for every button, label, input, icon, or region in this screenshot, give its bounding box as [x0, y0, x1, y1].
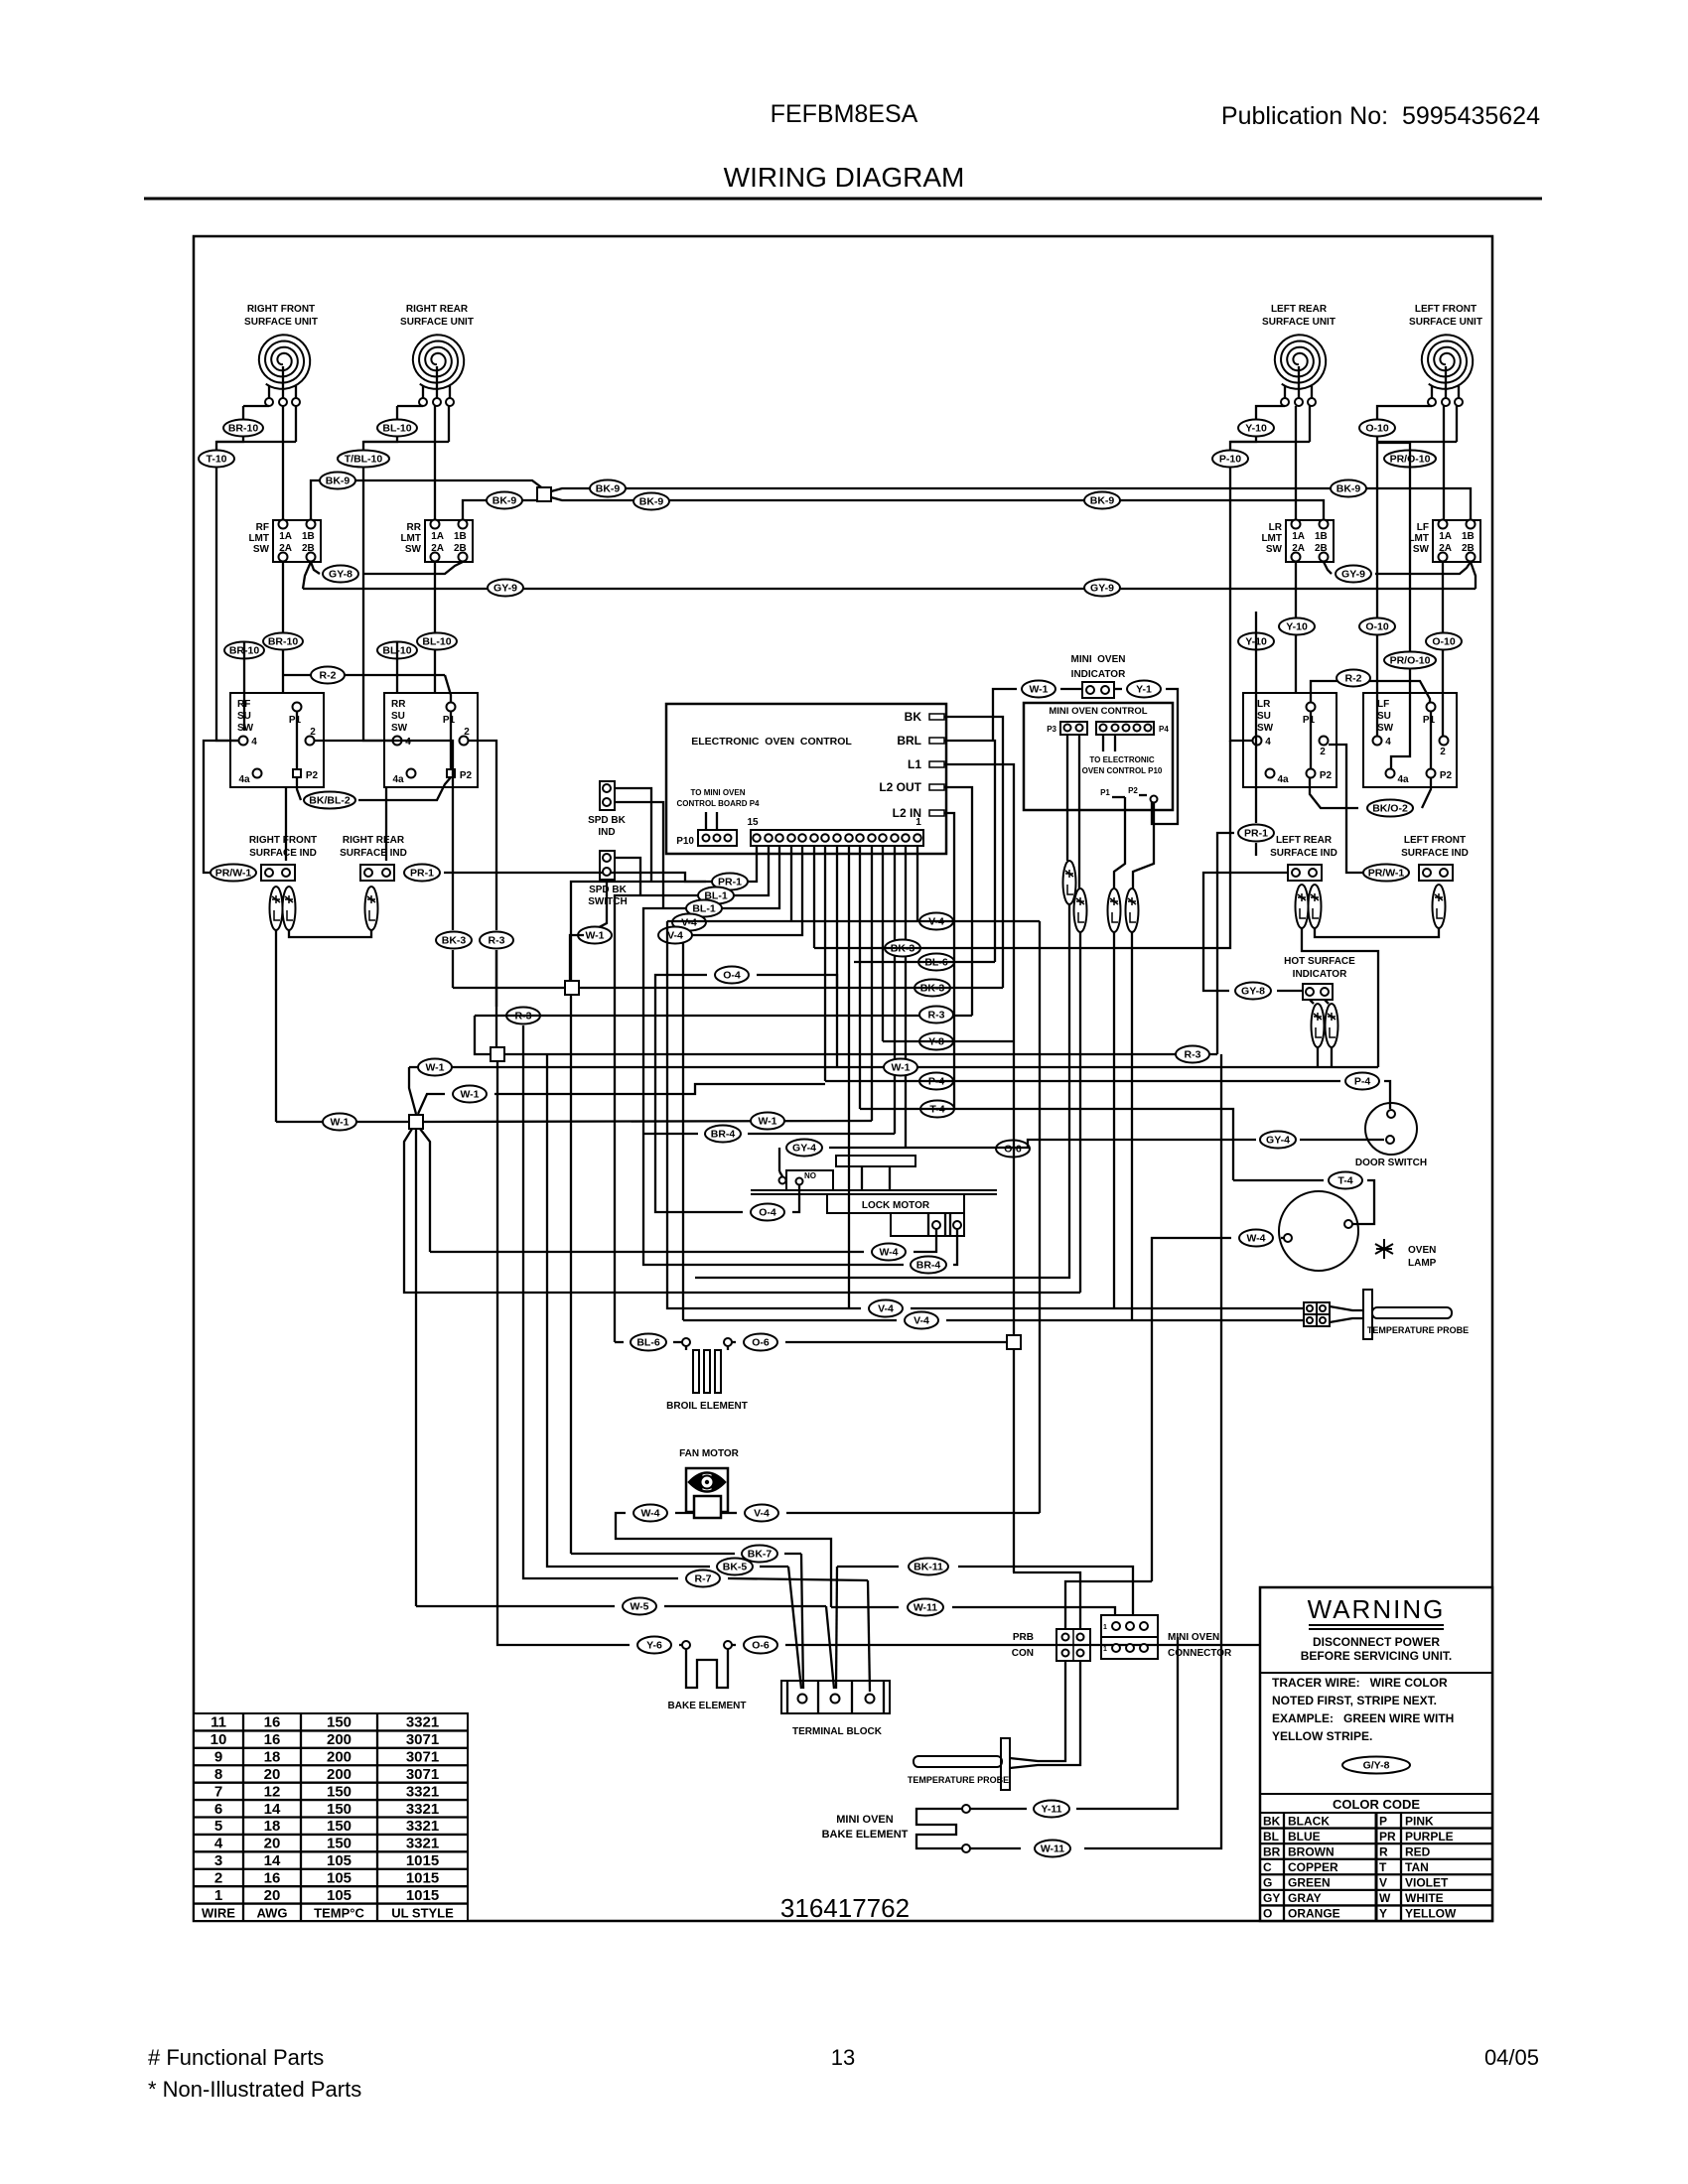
warning box frame: [1260, 1587, 1492, 1921]
svg-text:LEFT REAR: LEFT REAR: [1271, 304, 1328, 315]
svg-text:SW: SW: [237, 723, 254, 734]
svg-text:VIOLET: VIOLET: [1405, 1876, 1449, 1890]
temperature probe rod: [1372, 1307, 1452, 1318]
oval BL-10 top: [377, 420, 417, 437]
svg-text:2B: 2B: [454, 543, 467, 554]
svg-text:2: 2: [1440, 747, 1446, 757]
svg-text:G: G: [1263, 1876, 1272, 1890]
svg-text:SW: SW: [253, 544, 270, 555]
svg-text:PINK: PINK: [1405, 1814, 1434, 1828]
fan motor base: [694, 1496, 721, 1518]
oval GY-4 bus: [786, 1140, 822, 1157]
svg-text:04/05: 04/05: [1484, 2045, 1539, 2070]
wire BK/BL-2: [297, 777, 451, 800]
wire V-4 bus: [667, 921, 1040, 1513]
svg-text:AWG: AWG: [256, 1905, 287, 1920]
wire SPD BK IND pin2: [615, 802, 663, 908]
wire Y-8 bus: [883, 1040, 1014, 1042]
svg-text:NOTED FIRST, STRIPE NEXT.: NOTED FIRST, STRIPE NEXT.: [1272, 1694, 1437, 1707]
lock motor body: [827, 1194, 964, 1213]
left front ind lamp: [1433, 885, 1446, 928]
mini oven P1 P2: [1100, 786, 1157, 803]
svg-text:20: 20: [264, 1887, 281, 1904]
svg-text:1B: 1B: [302, 531, 315, 542]
svg-text:W: W: [1379, 1891, 1391, 1905]
svg-text:MINI OVEN: MINI OVEN: [836, 1814, 894, 1826]
svg-text:2A: 2A: [279, 543, 292, 554]
svg-text:3: 3: [214, 1852, 222, 1869]
right rear surface ind box: [360, 865, 394, 881]
wire L2 IN pin run: [944, 813, 954, 1109]
mini oven bake label: [822, 1814, 909, 1841]
svg-text:LEFT REAR: LEFT REAR: [1276, 835, 1333, 846]
oval BR-4 lock: [911, 1257, 946, 1274]
svg-text:10: 10: [211, 1731, 227, 1748]
publication number: [1221, 102, 1540, 130]
EOC P10 connector: [676, 830, 737, 847]
wire BK/O-2: [1310, 777, 1431, 808]
svg-text:W-11: W-11: [914, 1602, 937, 1614]
svg-text:P-4: P-4: [1354, 1076, 1371, 1088]
svg-text:RED: RED: [1405, 1844, 1431, 1858]
svg-text:O-4: O-4: [759, 1207, 776, 1219]
oval R-3 bus right: [919, 1007, 953, 1024]
svg-text:HOT SURFACE: HOT SURFACE: [1284, 956, 1355, 967]
left front surface unit label: [1409, 304, 1482, 328]
svg-text:R-2: R-2: [1345, 673, 1362, 685]
svg-text:2B: 2B: [1315, 543, 1328, 554]
wire R-2 left: [283, 675, 451, 703]
wire Y-11 link: [970, 1637, 1178, 1809]
svg-text:W-1: W-1: [425, 1062, 444, 1074]
wire GY-8 right link: [1203, 873, 1303, 991]
wire W-5 bus: [416, 1605, 826, 1607]
oval W-4 fan: [633, 1505, 667, 1522]
svg-text:P2: P2: [460, 770, 473, 781]
mini oven connector box: [1101, 1615, 1158, 1659]
svg-text:RR: RR: [407, 522, 422, 533]
svg-text:Y: Y: [1379, 1907, 1387, 1921]
wire PR/W-1 left riser: [204, 741, 238, 873]
svg-text:LR: LR: [1257, 699, 1271, 710]
wire RR LMT 1B to BK-9 bus: [463, 497, 544, 520]
svg-text:T-10: T-10: [206, 454, 226, 466]
wire R-3 bus: [475, 950, 1217, 1054]
svg-text:RIGHT REAR: RIGHT REAR: [343, 835, 405, 846]
oval GY-8 right: [1235, 983, 1271, 1000]
mini bake terminals: [962, 1805, 970, 1852]
oval Y-6: [637, 1637, 671, 1654]
svg-text:O-6: O-6: [752, 1640, 770, 1652]
svg-text:BROWN: BROWN: [1288, 1844, 1335, 1858]
wire SPD BK SW pin1: [615, 858, 640, 895]
wire O-4 mid: [655, 975, 837, 1212]
wire pin fan PR-1: [571, 846, 757, 1554]
wire RF coil right lead down: [216, 406, 296, 442]
svg-text:T: T: [1379, 1860, 1387, 1874]
svg-text:TERMINAL BLOCK: TERMINAL BLOCK: [792, 1726, 883, 1737]
wire lock motor W-4: [914, 1229, 936, 1252]
svg-text:GY-9: GY-9: [1341, 569, 1365, 581]
wire Y-1 mini link: [1114, 689, 1178, 824]
oval BK-9 d: [633, 493, 669, 510]
main border: [194, 236, 1492, 1921]
svg-text:16: 16: [264, 1869, 281, 1886]
svg-text:GY-8: GY-8: [329, 569, 352, 581]
svg-text:# Functional Parts: # Functional Parts: [148, 2045, 324, 2070]
svg-text:SW: SW: [1257, 723, 1274, 734]
wire pin fan BL-1 b: [643, 846, 779, 1134]
right rear surface ind label: [340, 835, 407, 859]
oval Y-11: [1034, 1801, 1069, 1818]
oval R-3 left: [480, 932, 513, 949]
oval BR-10 low: [224, 642, 264, 659]
wire R-3 right riser: [1217, 833, 1234, 1054]
mini oven indicator label: [1070, 654, 1126, 680]
oval V-4 fan a: [672, 914, 706, 931]
svg-text:SW: SW: [405, 544, 422, 555]
wire BK-3 low bus: [453, 741, 1230, 988]
wire GY-4 bus: [779, 1148, 906, 1171]
right front ind lamp b: [283, 887, 296, 930]
oval P-4 bus: [919, 1073, 953, 1090]
wire RF LMT 2A down: [282, 562, 284, 693]
wire W-1 bus 1075: [409, 1066, 1378, 1068]
footer date: [1484, 2045, 1539, 2070]
svg-text:BK/O-2: BK/O-2: [1372, 803, 1408, 815]
LF limit switch: [1408, 520, 1480, 563]
oval W-11: [908, 1599, 943, 1616]
left rear surface ind box: [1288, 865, 1322, 881]
svg-text:MINI OVEN: MINI OVEN: [1070, 654, 1125, 665]
svg-text:200: 200: [327, 1766, 352, 1783]
oval R-3 mid: [506, 1008, 540, 1024]
svg-text:16: 16: [264, 1731, 281, 1748]
wire gauge table: [194, 1713, 468, 1921]
oval BK-9 a: [320, 473, 355, 489]
svg-text:O-10: O-10: [1432, 636, 1456, 648]
oval V-4 probe a: [869, 1300, 903, 1317]
svg-text:P1: P1: [443, 715, 456, 726]
svg-text:W-1: W-1: [585, 930, 604, 942]
svg-text:LMT: LMT: [400, 533, 421, 544]
svg-text:YELLOW: YELLOW: [1405, 1907, 1457, 1921]
EOC pin strip 15..1: [747, 817, 923, 846]
svg-text:RIGHT FRONT: RIGHT FRONT: [249, 835, 317, 846]
right front ind lamp a: [270, 887, 283, 930]
oval O-6 broil: [744, 1334, 777, 1351]
svg-text:R-3: R-3: [1185, 1049, 1201, 1061]
svg-text:TEMP°C: TEMP°C: [314, 1905, 364, 1920]
svg-text:BK: BK: [905, 710, 922, 724]
oval BR-10 top: [223, 420, 263, 437]
oval BL-1 fan a: [698, 887, 734, 904]
wire junction down legs: [404, 1129, 1080, 1606]
wire RR LMT 2A down: [434, 562, 436, 693]
svg-text:T/BL-10: T/BL-10: [345, 454, 383, 466]
title underline: [144, 198, 1542, 201]
lock motor bar: [751, 1190, 997, 1194]
svg-text:P2: P2: [1320, 770, 1333, 781]
hot surface lamp a: [1312, 1004, 1325, 1047]
svg-text:Y-6: Y-6: [646, 1640, 662, 1652]
svg-text:V: V: [1379, 1876, 1387, 1890]
svg-text:BAKE ELEMENT: BAKE ELEMENT: [822, 1829, 909, 1841]
svg-text:V-4: V-4: [754, 1508, 770, 1520]
svg-text:2B: 2B: [302, 543, 315, 554]
svg-text:SPD BK: SPD BK: [588, 815, 627, 826]
svg-text:FEFBM8ESA: FEFBM8ESA: [771, 100, 918, 128]
oval T-4 bus: [920, 1101, 954, 1118]
wire LR coil mid lead to LR LMT 1A: [1295, 406, 1297, 520]
svg-text:1: 1: [214, 1887, 222, 1904]
color code table: [1260, 1813, 1492, 1921]
svg-text:BL-6: BL-6: [636, 1337, 659, 1349]
svg-text:P-10: P-10: [1219, 454, 1241, 466]
left front surface ind label: [1401, 835, 1469, 859]
oval PR/W-1 left: [211, 865, 256, 882]
mini oven indicator box: [1082, 682, 1114, 698]
oval BL-6 broil: [631, 1334, 666, 1351]
svg-text:BK-9: BK-9: [492, 495, 517, 507]
svg-text:Y-10: Y-10: [1286, 621, 1308, 633]
oval O-6 right: [996, 1141, 1030, 1158]
svg-text:P1: P1: [1303, 715, 1316, 726]
oval P-4 right: [1345, 1073, 1379, 1090]
wire BL-10 low vertical: [396, 641, 398, 693]
oval Y-10 low: [1238, 633, 1274, 650]
wire BK-9 bus lower to LR LMT 1B: [551, 497, 1324, 520]
svg-text:T-4: T-4: [1337, 1175, 1352, 1187]
svg-text:BK-9: BK-9: [326, 476, 351, 487]
svg-text:SU: SU: [391, 711, 405, 722]
mini oven control P3: [1047, 722, 1087, 735]
oval W-1 bus b: [884, 1059, 917, 1076]
svg-text:7: 7: [214, 1783, 222, 1800]
svg-text:BK-9: BK-9: [1090, 495, 1115, 507]
oval W-1 mini: [1022, 681, 1055, 698]
oval R-2 left: [311, 667, 345, 684]
junction W-1 main: [409, 1115, 423, 1129]
broil element terminals: [682, 1338, 732, 1346]
svg-text:SU: SU: [1257, 711, 1271, 722]
svg-text:LR: LR: [1269, 522, 1283, 533]
svg-text:TAN: TAN: [1405, 1860, 1429, 1874]
oval BK-7: [742, 1546, 777, 1563]
wire GY-4 right bus: [906, 1140, 1256, 1148]
wire W-1 junction V: [409, 1067, 445, 1114]
oval BL-6 bus: [918, 954, 954, 971]
wire W-4 oven lamp link: [1152, 1238, 1284, 1581]
wire pin fan BL-1 a: [615, 846, 769, 1342]
wire T-4 door link: [1233, 1180, 1374, 1201]
LF surface switch: [1363, 693, 1457, 787]
svg-text:W-4: W-4: [640, 1508, 659, 1520]
svg-text:W-1: W-1: [1029, 684, 1048, 696]
oval T-4 door: [1329, 1172, 1362, 1189]
svg-text:3071: 3071: [406, 1766, 439, 1783]
wire terminal block feeds: [788, 1554, 870, 1692]
wire RR coil mid lead down to RR LMT 1A: [434, 406, 436, 520]
oval PR-1 left of LR box: [1238, 825, 1274, 842]
oval W-1 bus a: [418, 1059, 452, 1076]
left rear ind lamp b: [1309, 885, 1322, 928]
wire PR/W-1 right link: [1329, 745, 1363, 873]
RR surface switch: [384, 693, 478, 787]
svg-text:* Non-Illustrated Parts: * Non-Illustrated Parts: [148, 2077, 361, 2102]
svg-text:LF: LF: [1417, 522, 1429, 533]
svg-text:150: 150: [327, 1818, 352, 1835]
wire R-3 left drop: [495, 950, 497, 1007]
EOC P10 wires: [706, 812, 717, 830]
oval V-4 fan b: [658, 927, 692, 944]
svg-text:L1: L1: [908, 757, 921, 771]
svg-text:MINI OVEN CONTROL: MINI OVEN CONTROL: [1049, 706, 1147, 717]
svg-text:4a: 4a: [1277, 774, 1289, 785]
svg-text:15: 15: [747, 817, 759, 828]
wire GY-9 c to LF wiring: [1375, 562, 1471, 574]
oval O-10 mid: [1359, 618, 1395, 635]
svg-text:GY-4: GY-4: [792, 1143, 816, 1155]
oval PR/W-1 right: [1363, 865, 1409, 882]
wire T-4 bus: [860, 1109, 1233, 1180]
wire L1 pin run: [944, 764, 1014, 1041]
svg-text:3071: 3071: [406, 1749, 439, 1766]
svg-text:SURFACE IND: SURFACE IND: [1401, 848, 1469, 859]
svg-text:1015: 1015: [406, 1852, 439, 1869]
svg-text:WHITE: WHITE: [1405, 1891, 1444, 1905]
wire BK-5 bus: [547, 1054, 788, 1567]
svg-text:3071: 3071: [406, 1731, 439, 1748]
svg-text:SW: SW: [1413, 544, 1430, 555]
svg-text:150: 150: [327, 1801, 352, 1818]
wire O-6 bake bus: [732, 1644, 1316, 1646]
svg-text:3321: 3321: [406, 1818, 439, 1835]
mini oven lamp Y-1: [1108, 888, 1121, 932]
oval Y-1 mini: [1127, 681, 1161, 698]
svg-text:G/Y-8: G/Y-8: [1363, 1760, 1390, 1772]
lock motor top plate: [836, 1156, 915, 1166]
oval W-1 1129: [751, 1113, 784, 1130]
svg-text:BK/BL-2: BK/BL-2: [309, 795, 351, 807]
svg-text:4: 4: [405, 737, 411, 748]
svg-text:SURFACE UNIT: SURFACE UNIT: [1409, 317, 1482, 328]
svg-text:V-4: V-4: [914, 1315, 929, 1327]
svg-text:YELLOW STRIPE.: YELLOW STRIPE.: [1272, 1729, 1372, 1743]
svg-text:W-1: W-1: [330, 1117, 349, 1129]
wire mini conn feed2: [1055, 1661, 1080, 1765]
svg-text:2: 2: [1320, 747, 1326, 757]
svg-text:W-11: W-11: [1041, 1843, 1064, 1855]
svg-text:W-1: W-1: [891, 1062, 910, 1074]
warning divider: [1260, 1672, 1492, 1674]
svg-text:1A: 1A: [1292, 531, 1305, 542]
oval O-4 lock: [751, 1204, 784, 1221]
wire RF sw 2 riser: [315, 741, 453, 930]
svg-text:WIRING DIAGRAM: WIRING DIAGRAM: [724, 162, 965, 193]
mini oven control box: [1024, 703, 1173, 810]
oval BK-11: [909, 1559, 948, 1575]
SPD BK SWITCH label: [588, 885, 627, 907]
wire BR-10 low vertical: [243, 641, 245, 731]
svg-text:INDICATOR: INDICATOR: [1293, 969, 1347, 980]
wire LF coil left lead jog: [1377, 406, 1432, 736]
bake element shape: [686, 1649, 728, 1688]
svg-text:R-3: R-3: [928, 1010, 945, 1022]
svg-text:LAMP: LAMP: [1408, 1258, 1437, 1269]
svg-text:150: 150: [327, 1783, 352, 1800]
lock motor label: [862, 1200, 930, 1211]
svg-text:SW: SW: [391, 723, 408, 734]
svg-text:1A: 1A: [1439, 531, 1452, 542]
svg-text:TO MINI OVEN: TO MINI OVEN: [691, 788, 746, 797]
lock motor NO box: [779, 1170, 834, 1190]
wire LR lamp drop to bus: [1302, 928, 1378, 1067]
wire strip pin drops: [814, 846, 917, 1308]
svg-text:P2: P2: [1128, 786, 1138, 795]
oval GY-9 a: [488, 580, 523, 597]
right front surface unit coil: [259, 335, 310, 406]
oval BR-4 bus: [705, 1126, 741, 1143]
svg-text:200: 200: [327, 1749, 352, 1766]
door switch label: [1355, 1158, 1427, 1168]
svg-text:105: 105: [327, 1869, 352, 1886]
svg-text:GREEN: GREEN: [1288, 1876, 1331, 1890]
svg-text:1A: 1A: [279, 531, 292, 542]
wire RF coil left lead to T-10 drop: [216, 406, 269, 741]
svg-text:GY-9: GY-9: [1090, 583, 1114, 595]
svg-text:INDICATOR: INDICATOR: [1071, 669, 1126, 680]
svg-text:ORANGE: ORANGE: [1288, 1907, 1340, 1921]
svg-text:BR-4: BR-4: [711, 1129, 736, 1141]
svg-text:PR: PR: [1379, 1830, 1396, 1843]
oval Y-8 bus: [919, 1033, 953, 1050]
svg-text:V-4: V-4: [878, 1303, 894, 1315]
footer functional parts: [148, 2045, 324, 2070]
oval BK/BL-2: [304, 792, 355, 809]
svg-text:2A: 2A: [1292, 543, 1305, 554]
svg-text:P1: P1: [1423, 715, 1436, 726]
wire Y-6 bus: [497, 1061, 682, 1645]
svg-text:SPD BK: SPD BK: [589, 885, 628, 895]
svg-text:BK-9: BK-9: [1336, 483, 1361, 495]
svg-text:GY-8: GY-8: [1241, 986, 1265, 998]
svg-text:2A: 2A: [431, 543, 444, 554]
mini oven lamp BK-1: [1126, 888, 1139, 932]
svg-text:COPPER: COPPER: [1288, 1860, 1338, 1874]
oval R-2 right: [1336, 670, 1370, 687]
svg-text:SURFACE UNIT: SURFACE UNIT: [244, 317, 318, 328]
wire P2 to lamp: [1133, 802, 1154, 888]
wire W-11 mini link: [970, 1054, 1221, 1848]
svg-text:DISCONNECT POWER: DISCONNECT POWER: [1313, 1635, 1440, 1649]
svg-text:EXAMPLE: GREEN WIRE WITH: EXAMPLE: GREEN WIRE WITH: [1272, 1711, 1454, 1725]
left front surface ind box: [1419, 865, 1453, 881]
right rear ind lamp: [365, 887, 378, 930]
svg-text:O-10: O-10: [1365, 621, 1389, 633]
svg-text:BROIL ELEMENT: BROIL ELEMENT: [666, 1401, 748, 1412]
oval W-1 fan: [578, 927, 612, 944]
svg-text:V-4: V-4: [667, 930, 683, 942]
right front surface ind label: [249, 835, 317, 859]
oval GY-9 b: [1084, 580, 1120, 597]
svg-text:1: 1: [915, 817, 921, 828]
junction O-6: [1007, 1335, 1021, 1349]
svg-text:BR-4: BR-4: [916, 1260, 941, 1272]
oval BR-10 mid: [263, 633, 303, 650]
mini oven to-EOC text: [1082, 755, 1163, 775]
svg-text:PR-1: PR-1: [410, 868, 434, 880]
